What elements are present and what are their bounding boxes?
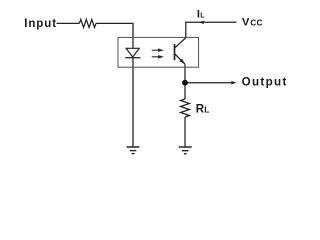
- svg-text:L: L: [200, 13, 205, 20]
- svg-text:L: L: [204, 105, 209, 115]
- svg-text:Input: Input: [24, 18, 57, 30]
- svg-text:Output: Output: [242, 76, 288, 89]
- svg-text:CC: CC: [250, 18, 263, 28]
- svg-text:V: V: [242, 17, 250, 29]
